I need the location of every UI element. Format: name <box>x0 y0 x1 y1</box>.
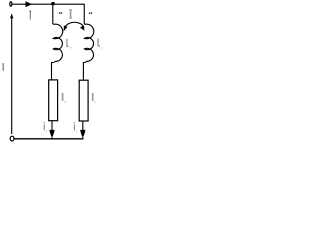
wire branch2 bottom <box>82 121 84 139</box>
terminal top-left <box>10 2 12 7</box>
current arrow I on top wire <box>26 1 33 7</box>
current arrow i2 <box>80 130 85 136</box>
winding dots coil1 <box>59 12 60 14</box>
coil L1 cusp wedges <box>53 37 55 39</box>
label u <box>3 63 5 71</box>
resistor R1 <box>49 80 58 121</box>
winding dots coil2 <box>89 12 90 14</box>
label R1 <box>62 93 64 101</box>
wire bottom rail <box>14 138 84 140</box>
label i1 <box>44 122 45 123</box>
inductor L2 <box>83 24 93 80</box>
wire branch2 top stem <box>83 4 85 24</box>
coil L2 cusp wedges <box>84 37 86 39</box>
node junction dot <box>51 2 54 5</box>
wire branch1 top stem <box>52 4 54 24</box>
label I (top current) <box>30 10 31 12</box>
label M <box>69 9 72 10</box>
terminal bottom-left <box>10 136 14 141</box>
current arrow i1 <box>49 130 54 136</box>
wire branch1 bottom <box>51 121 53 139</box>
label L1 <box>66 39 67 47</box>
resistor R2 <box>79 80 88 121</box>
label i2 <box>74 122 75 123</box>
label L2 <box>97 39 98 47</box>
inductor L1 <box>52 24 63 80</box>
voltage arrow u <box>11 17 13 134</box>
wire top horizontal <box>12 3 85 5</box>
coupling arc M <box>65 22 84 28</box>
label R2 <box>92 93 94 101</box>
